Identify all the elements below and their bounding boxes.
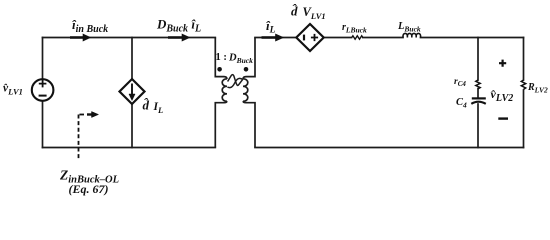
wire middle branch lower xyxy=(131,104,133,148)
plus inside diamond xyxy=(311,34,318,41)
resistor r_LBuck xyxy=(352,36,363,39)
wire rC4 branch upper xyxy=(477,38,479,81)
wire right edge lower xyxy=(523,90,525,148)
wire left rail upper xyxy=(42,38,44,80)
impedance probe dashed arrow Z_inBuck xyxy=(79,115,94,159)
svg-text:DBuck: DBuck xyxy=(228,53,253,66)
svg-text:rLBuck: rLBuck xyxy=(342,22,367,35)
svg-text:d̂: d̂ xyxy=(143,98,150,113)
polarity dot primary xyxy=(217,67,222,72)
svg-text:VLV1: VLV1 xyxy=(303,5,326,21)
current arrow i_in xyxy=(70,34,91,41)
minus inside diamond xyxy=(303,35,305,41)
svg-text:îin Buck: îin Buck xyxy=(72,17,108,35)
svg-text:1 :: 1 : xyxy=(216,52,227,63)
capacitor C4 xyxy=(471,98,486,103)
svg-text:v̂LV2: v̂LV2 xyxy=(490,87,513,104)
wire middle branch upper xyxy=(131,38,133,80)
wire rC4 to C4 xyxy=(477,89,479,98)
resistor R_LV2 xyxy=(521,80,525,89)
dependent current source dI_L xyxy=(120,79,145,104)
transformer secondary winding xyxy=(243,38,255,148)
output plus xyxy=(499,60,506,67)
transformer coupling wave xyxy=(227,75,243,88)
wire top-left rail xyxy=(43,37,216,39)
wire right edge upper xyxy=(523,38,525,81)
wire bottom-right rail xyxy=(255,147,524,149)
wire C4 branch lower xyxy=(477,104,479,148)
wire between resistor and inductor xyxy=(363,37,403,39)
svg-text:C4: C4 xyxy=(456,97,467,110)
svg-text:IL: IL xyxy=(153,101,164,115)
dependent voltage source dV_LV1 xyxy=(296,24,323,51)
output minus xyxy=(498,117,508,119)
wire bottom-left rail xyxy=(43,147,216,149)
svg-text:RLV2: RLV2 xyxy=(527,82,548,95)
current arrow i_L secondary xyxy=(262,34,284,41)
transformer primary winding xyxy=(215,38,227,148)
svg-text:îL: îL xyxy=(266,18,276,36)
svg-text:(Eq. 67): (Eq. 67) xyxy=(69,182,109,196)
wire secondary top lead xyxy=(255,37,297,39)
svg-text:v̂LV1: v̂LV1 xyxy=(3,83,23,97)
svg-text:LBuck: LBuck xyxy=(397,21,421,34)
wire left rail lower xyxy=(42,101,44,148)
svg-text:d̂: d̂ xyxy=(291,4,298,19)
svg-text:rC4: rC4 xyxy=(454,77,466,88)
resistor r_C4 xyxy=(476,80,480,89)
wire after voltage diamond xyxy=(324,37,352,39)
voltage source V_LV1 xyxy=(32,79,54,101)
polarity dot secondary xyxy=(244,67,249,72)
wire inductor to right corner xyxy=(421,37,524,39)
svg-text:DBuck îL: DBuck îL xyxy=(156,17,201,35)
inductor L_Buck xyxy=(403,33,421,37)
current arrow D_Buck i_L xyxy=(168,34,190,41)
